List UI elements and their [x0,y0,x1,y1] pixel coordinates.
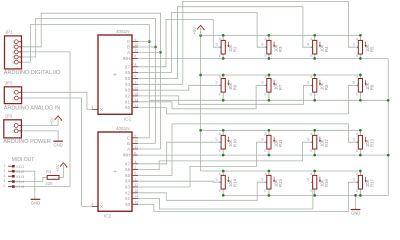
svg-text:4051N: 4051N [116,126,130,131]
svg-text:R12: R12 [324,139,329,147]
wire JP1 pin2 to net C [22,13,161,149]
svg-text:ARDUINO POWER: ARDUINO POWER [3,139,51,145]
svg-text:A: A [127,147,130,152]
wire IC2 X3 to pot row3 col2 [132,142,267,187]
node R5 bottom [359,57,362,60]
node R10 bottom [222,154,225,157]
wire IC1 X7 to pot row1 col1 [132,19,221,66]
connector JP3 [4,114,22,138]
svg-text:2: 2 [3,169,5,173]
svg-text:E: E [219,149,221,153]
svg-text:1: 1 [12,40,14,44]
svg-text:5: 5 [12,61,14,65]
wire GND rail row2 [150,99,388,101]
wire IC2 X4 to pot row4 col1 [132,181,221,182]
svg-text:X4: X4 [125,179,131,184]
svg-text:B: B [127,141,130,146]
trimmer R4 [307,35,329,58]
svg-text:1: 1 [3,164,5,168]
svg-text:4: 4 [3,179,5,183]
wire MIDI pad2 to GND [15,171,35,199]
resistor R1 220 [45,169,59,186]
node R9 bottom [359,99,362,102]
wire IC2 X1 to pot row4 col3 [132,182,313,209]
node R4 top [313,34,316,37]
svg-text:JP1: JP1 [5,30,13,35]
node R15 bottom [268,194,271,197]
node R5 top [359,34,362,37]
connector X1 MIDI OUT [3,157,34,189]
node IC1 pin9 junction [148,40,151,43]
node R9 top [359,74,362,77]
wire IC2 X2 to pot row4 col2 [132,182,267,200]
svg-text:IC1: IC1 [124,117,132,122]
svg-text:X: X [100,107,103,112]
wire JP1 pin5 to net A [22,25,150,138]
trimmer R3 [261,35,283,58]
svg-text:MIDI OUT: MIDI OUT [12,157,35,163]
svg-text:R17: R17 [370,179,375,187]
svg-text:R2: R2 [232,46,237,52]
node R6 top [222,74,225,77]
trimmer R2 [215,35,237,58]
svg-text:E: E [356,149,358,153]
svg-text:R10: R10 [232,139,237,147]
svg-text:E: E [310,189,312,193]
svg-text:12: 12 [134,86,138,90]
svg-text:X6: X6 [125,167,131,172]
svg-text:X2: X2 [125,190,131,195]
node R10 top [222,129,225,132]
wire IC1 B [132,46,156,48]
node R3 bottom [268,57,271,60]
svg-text:+5V: +5V [192,27,197,35]
+5V symbol [50,116,63,126]
svg-text:C: C [127,135,130,140]
svg-text:E: E [356,92,358,96]
svg-text:X0: X0 [125,105,131,110]
svg-text:5: 5 [3,184,5,188]
svg-text:X1: X1 [125,99,131,104]
node R11 bottom [268,154,271,157]
trimmer R10 [215,130,237,155]
svg-text:R11: R11 [278,139,283,147]
svg-text:R8: R8 [324,84,329,90]
wire IC2 X7 to pot row3 col1 [132,142,221,164]
wire GND rail row3 / IC2 INH [132,154,388,156]
wire +5V rail row3 [201,129,361,131]
node +5V feed [199,34,202,37]
svg-text:JP2: JP2 [5,81,13,86]
trimmer R17 [353,171,375,195]
svg-text:4: 4 [134,63,136,67]
wire IC1 X1 to pot row2 col2 [132,85,267,109]
svg-text:X6: X6 [125,70,131,75]
node R7 top [268,74,271,77]
svg-text:C: C [127,39,130,44]
svg-text:15: 15 [134,189,138,193]
svg-text:2: 2 [12,96,14,100]
svg-text:10: 10 [134,140,138,144]
svg-text:R1: R1 [46,169,52,174]
node R7 bottom [268,99,271,102]
node R14 bottom [222,194,225,197]
wire GND rail row1 / IC1 INH [132,58,388,60]
svg-text:14: 14 [134,195,138,199]
svg-text:E: E [310,54,312,58]
trimmer R12 [307,130,329,155]
wire IC1 A [132,51,161,53]
wire IC1 X3 to pot row2 col1 [132,85,221,90]
svg-text:R16: R16 [324,179,329,187]
node R12 top [313,129,316,132]
node R17 top [359,170,362,173]
svg-text:R5: R5 [370,46,375,52]
node R14 top [222,170,225,173]
svg-text:R13: R13 [370,139,375,147]
node R15 top [268,170,271,173]
svg-text:1: 1 [134,81,136,85]
trimmer R8 [307,75,329,100]
node GND rail3 join [387,154,390,157]
svg-text:10: 10 [134,43,138,47]
svg-text:2: 2 [134,166,136,170]
svg-text:E: E [356,189,358,193]
wire IC2 X0 to pot row4 col4 [132,182,358,211]
trimmer R13 [353,130,375,155]
wire IC1 X2 to pot row2 col3 [132,85,312,104]
svg-text:X7: X7 [125,161,131,166]
node R3 top [268,34,271,37]
node IC1 pin11 junction [159,51,162,54]
svg-text:GND: GND [351,211,360,216]
svg-text:6: 6 [134,151,136,155]
node R16 bottom [313,194,316,197]
svg-text:1: 1 [12,91,14,95]
svg-text:X7: X7 [125,64,131,69]
trimmer R5 [353,35,375,58]
svg-text:GND: GND [31,201,40,206]
svg-text:4: 4 [134,160,136,164]
trimmer R7 [261,75,283,100]
wire +5V distribution vertical [200,36,202,172]
svg-text:9: 9 [134,134,136,138]
svg-text:+5V: +5V [55,164,60,172]
wire R1 to +5V [59,170,63,178]
svg-text:JP3: JP3 [4,114,12,119]
svg-text:X: X [100,204,103,209]
wire GND stub bottom right [355,195,357,209]
svg-text:GND: GND [54,142,63,147]
wire IC1 X6 to pot row1 col2 [132,13,267,73]
svg-text:E: E [265,149,267,153]
svg-text:E: E [219,189,221,193]
svg-text:13: 13 [134,201,138,205]
trimmer R11 [261,130,283,155]
svg-text:11: 11 [134,145,138,149]
wire IC1 X5 to pot row1 col3 [132,7,312,79]
node R2 bottom [222,57,225,60]
svg-text:R9: R9 [370,84,375,90]
wire JP2 pin1 to IC1 X [22,92,98,109]
svg-text:4051N: 4051N [116,29,130,34]
node rail2 feed [199,74,202,77]
svg-text:ARDUINO DIGITAL I/O: ARDUINO DIGITAL I/O [4,70,61,76]
connector JP1 [5,30,22,69]
svg-text:2: 2 [12,45,14,49]
mux IC2 4051N [91,132,138,211]
svg-text:220: 220 [45,181,53,186]
ground [31,199,41,205]
node R6 bottom [222,99,225,102]
svg-text:X3: X3 [125,185,131,190]
wire MIDI pad4 to R1 [15,177,48,181]
svg-text:3: 3 [91,106,93,110]
ground [351,210,361,216]
wire IC1 C [132,41,149,43]
wire IC1 X4 to pot row1 col4 [132,1,358,84]
wire JP3 pin2 to GND [21,131,58,141]
svg-text:R3: R3 [278,46,283,52]
node R4 bottom [313,57,316,60]
svg-text:E: E [356,54,358,58]
svg-text:15: 15 [134,92,138,96]
svg-text:E: E [265,54,267,58]
svg-text:1: 1 [134,177,136,181]
svg-text:R14: R14 [232,179,237,187]
wire IC2 A [132,148,161,150]
node R2 top [222,34,225,37]
connector JP2 [4,81,21,104]
svg-text:E: E [265,189,267,193]
svg-text:X2: X2 [125,93,131,98]
svg-text:13: 13 [134,104,138,108]
svg-text:X1: X1 [125,196,131,201]
svg-text:X3: X3 [125,88,131,93]
svg-text:INH: INH [123,153,130,158]
svg-text:X1/3: X1/3 [16,174,25,179]
svg-text:9: 9 [134,38,136,42]
node R13 bottom [359,154,362,157]
svg-text:X0: X0 [125,202,131,207]
trimmer R9 [353,75,375,100]
wire JP1 pin3 TX to MIDI pad5 [15,52,70,187]
wire IC2 X5 to pot row3 col4 [132,124,358,175]
svg-text:X4: X4 [125,82,131,87]
svg-text:ARDUINO ANALOG IN: ARDUINO ANALOG IN [4,106,61,112]
svg-text:E: E [219,92,221,96]
svg-text:2: 2 [134,69,136,73]
node GND rail2 join [387,99,390,102]
wire IC2 C [132,137,149,139]
svg-text:R7: R7 [278,84,283,90]
svg-text:B: B [127,45,130,50]
svg-text:E: E [310,149,312,153]
svg-text:E: E [310,92,312,96]
ground [53,141,63,147]
svg-text:R4: R4 [324,46,329,52]
node IC1 pin10 junction [154,46,157,49]
wire GND rail row4 [223,194,388,196]
svg-text:5: 5 [134,75,136,79]
wire JP2 pin2 to IC2 X [22,98,98,206]
svg-text:2: 2 [12,129,14,133]
wire IC2 B [132,142,156,144]
svg-text:3: 3 [91,203,93,207]
wire IC1 X0 to pot row2 col4 [132,85,358,114]
node R8 top [313,74,316,77]
svg-text:12: 12 [134,183,138,187]
svg-text:5: 5 [134,172,136,176]
svg-text:3: 3 [12,50,14,54]
wire +5V rail row1 [201,34,361,36]
svg-text:3: 3 [3,174,5,178]
node R11 top [268,129,271,132]
svg-text:X5: X5 [125,173,131,178]
wire +5V rail row2 [201,74,361,76]
trimmer R14 [215,171,237,195]
svg-text:INH: INH [123,56,130,61]
trimmer R16 [307,171,329,195]
wire JP1 pin4 to net B [22,19,156,144]
wire JP3 pin1 to +5V [21,125,58,127]
svg-text:14: 14 [134,98,138,102]
svg-text:A: A [127,50,130,55]
trimmer R15 [261,171,283,195]
svg-text:IC2: IC2 [104,214,112,219]
node R12 bottom [313,154,316,157]
svg-text:R6: R6 [232,84,237,90]
svg-text:X1/5: X1/5 [16,184,25,189]
svg-text:1: 1 [12,124,14,128]
node R8 bottom [313,99,316,102]
node rail3 feed [199,129,202,132]
svg-text:6: 6 [134,55,136,59]
trimmer R6 [215,75,237,100]
svg-text:11: 11 [134,49,138,53]
node R16 top [313,170,316,173]
+5V symbol [55,163,68,172]
svg-text:X5: X5 [125,76,131,81]
node R13 top [359,129,362,132]
node R17 bottom [359,194,362,197]
svg-text:E: E [219,54,221,58]
+5V symbol [192,25,205,35]
wire +5V rail row4 [201,170,361,172]
svg-text:E: E [265,92,267,96]
wire GND vertical right [387,59,389,196]
svg-text:4: 4 [12,55,14,59]
mux IC1 4051N [91,35,138,114]
svg-text:R15: R15 [278,179,283,187]
wire IC2 X6 to pot row3 col3 [132,142,312,169]
svg-text:+5V: +5V [50,117,55,125]
